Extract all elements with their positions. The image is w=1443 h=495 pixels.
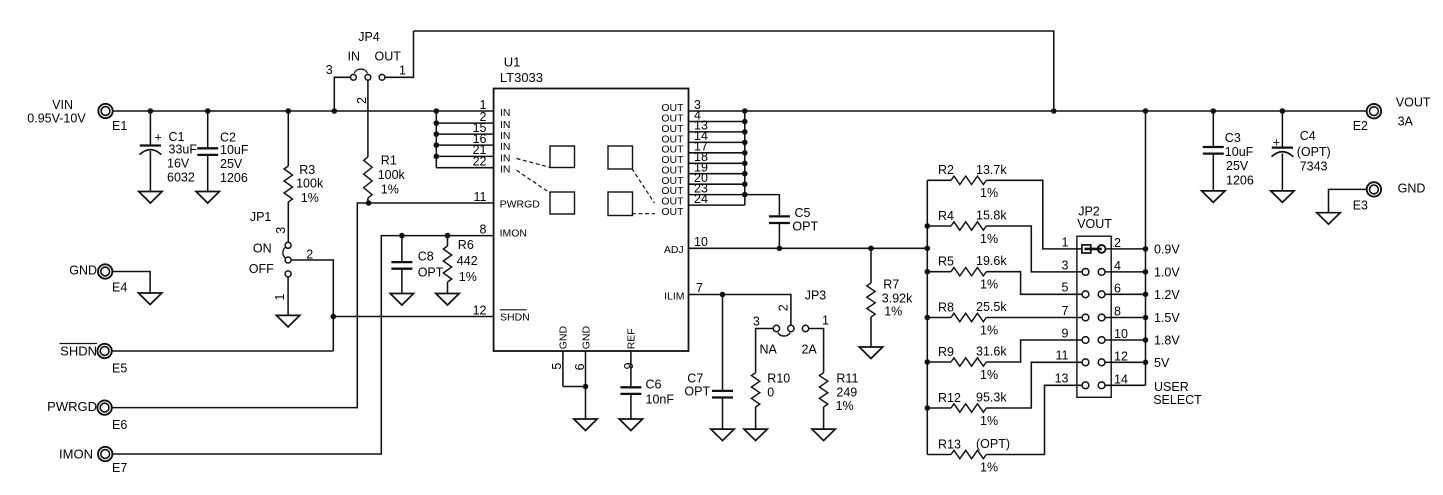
svg-text:VOUT: VOUT — [1396, 96, 1431, 110]
svg-text:E5: E5 — [112, 361, 127, 375]
ground E4 — [138, 293, 161, 305]
capacitor C8 — [391, 236, 443, 294]
JP2 odd pin numbers — [1055, 235, 1069, 385]
capacitor C1 — [140, 111, 198, 192]
svg-text:1: 1 — [1062, 235, 1069, 249]
svg-text:ILIM: ILIM — [664, 290, 684, 302]
junction R1 bottom — [366, 200, 372, 206]
svg-text:8: 8 — [1114, 305, 1121, 319]
svg-text:1%: 1% — [980, 414, 998, 428]
svg-text:VIN: VIN — [52, 98, 73, 112]
svg-text:1.5V: 1.5V — [1154, 311, 1180, 325]
svg-text:OUT: OUT — [661, 206, 684, 218]
op-amp U1 LT3033 body — [494, 54, 689, 351]
terminal E2 VOUT — [1353, 96, 1431, 133]
svg-text:GND: GND — [69, 264, 97, 278]
dashed link IN to pad LL — [517, 170, 551, 193]
svg-text:10: 10 — [1114, 327, 1128, 341]
svg-text:1: 1 — [822, 313, 829, 327]
dashed link pad UR to OUT — [632, 169, 655, 204]
pin labels OUT x11 — [661, 102, 684, 218]
junction ladder bus — [925, 223, 931, 411]
capacitor C3 — [1203, 111, 1254, 191]
svg-text:12: 12 — [473, 303, 487, 317]
resistor R8 — [927, 300, 1007, 337]
junction VIN wire — [148, 108, 440, 114]
svg-text:3: 3 — [1062, 258, 1069, 272]
svg-text:GND: GND — [558, 326, 570, 350]
svg-text:25.5k: 25.5k — [976, 300, 1007, 314]
svg-text:+: + — [155, 131, 162, 145]
svg-text:1%: 1% — [980, 232, 998, 246]
svg-text:7: 7 — [1062, 304, 1069, 318]
wire E6 PWRGD net — [112, 203, 494, 408]
capacitor C6 — [620, 377, 674, 419]
svg-text:10: 10 — [694, 235, 708, 249]
svg-text:100k: 100k — [378, 168, 406, 182]
wire OUT pin stubs — [689, 111, 745, 205]
ground C7 — [711, 429, 734, 441]
svg-text:OFF: OFF — [249, 262, 274, 276]
svg-text:11: 11 — [474, 190, 487, 204]
svg-text:25V: 25V — [1226, 159, 1249, 173]
svg-text:6032: 6032 — [167, 171, 195, 185]
wire JP2 even pins to VOUT bus — [1105, 249, 1146, 385]
svg-text:0: 0 — [767, 386, 774, 400]
svg-text:3.92k: 3.92k — [882, 291, 913, 305]
dashed link IN to pad UL — [517, 159, 551, 168]
svg-text:2: 2 — [1114, 236, 1121, 250]
svg-text:1.8V: 1.8V — [1154, 334, 1180, 348]
wire VOUT main — [745, 110, 1367, 112]
svg-text:8: 8 — [480, 222, 487, 236]
svg-text:OUT: OUT — [375, 50, 402, 64]
ground R7 — [859, 347, 882, 359]
svg-text:100k: 100k — [296, 177, 324, 191]
wire SHDN to IC pin 12 — [333, 316, 493, 318]
wire JP1 pin2 to SHDN net — [291, 260, 333, 351]
svg-text:C5: C5 — [795, 206, 811, 220]
wire IN bus vertical — [435, 111, 437, 168]
resistor R5 — [927, 254, 1007, 291]
dashed link pad LR to OUT — [632, 213, 655, 215]
svg-text:9: 9 — [1062, 326, 1069, 340]
svg-text:4: 4 — [1114, 259, 1121, 273]
svg-text:GND: GND — [580, 326, 592, 350]
svg-text:OPT: OPT — [684, 384, 710, 398]
svg-text:7: 7 — [696, 281, 703, 295]
svg-text:IN: IN — [348, 50, 361, 64]
svg-text:1%: 1% — [884, 305, 902, 319]
svg-text:10nF: 10nF — [646, 392, 675, 406]
svg-text:12: 12 — [1114, 349, 1128, 363]
svg-text:15.8k: 15.8k — [976, 209, 1007, 223]
svg-text:R12: R12 — [938, 391, 961, 405]
svg-text:1%: 1% — [980, 278, 998, 292]
svg-text:1: 1 — [273, 294, 287, 301]
resistor R13 — [927, 437, 1010, 474]
svg-text:NA: NA — [760, 343, 778, 357]
svg-text:9: 9 — [622, 362, 636, 369]
svg-text:PWRGD: PWRGD — [47, 399, 97, 414]
svg-text:ON: ON — [253, 241, 272, 255]
wire JP4 pin3 to VIN — [334, 77, 350, 111]
wire R13 to JP2 pin 13 — [986, 385, 1082, 454]
ground C2 — [196, 192, 219, 204]
ground C3 — [1202, 191, 1225, 203]
svg-text:SHDN: SHDN — [500, 312, 530, 324]
junction IMON net — [399, 233, 450, 239]
svg-text:2: 2 — [777, 304, 791, 311]
svg-text:5: 5 — [550, 363, 564, 370]
svg-text:R4: R4 — [938, 209, 954, 223]
svg-text:3A: 3A — [1398, 115, 1414, 129]
svg-text:1%: 1% — [980, 323, 998, 337]
junction IN bus — [434, 120, 440, 159]
ground JP1 — [276, 315, 299, 327]
junction VOUT main — [1051, 108, 1285, 114]
svg-text:REF: REF — [626, 328, 638, 349]
svg-text:1.0V: 1.0V — [1154, 265, 1180, 279]
svg-text:16V: 16V — [167, 157, 190, 171]
svg-text:+: + — [1273, 136, 1280, 150]
capacitor C7 — [684, 295, 733, 430]
svg-text:10uF: 10uF — [220, 143, 249, 157]
resistor R7 — [867, 248, 913, 347]
pad square LL — [550, 192, 575, 214]
svg-text:1%: 1% — [301, 191, 319, 205]
svg-text:OPT: OPT — [418, 265, 444, 279]
pad square UL — [550, 146, 575, 168]
pin GND 6 — [573, 326, 593, 419]
svg-text:31.6k: 31.6k — [976, 345, 1007, 359]
svg-text:1: 1 — [399, 64, 406, 78]
wire JP4 pin1 to top net — [385, 31, 414, 77]
svg-text:3: 3 — [274, 227, 288, 234]
wire JP4 pin2 down to R1 — [367, 80, 369, 157]
ground IC GND pins — [574, 419, 597, 431]
wire R12 to JP2 pin 11 — [986, 362, 1082, 408]
ground R10 — [744, 429, 767, 441]
resistor R1 — [364, 154, 406, 204]
svg-text:GND: GND — [1398, 182, 1426, 196]
connector JP2 body — [1077, 204, 1112, 397]
svg-text:2A: 2A — [801, 343, 817, 357]
svg-text:ADJ: ADJ — [664, 244, 684, 256]
svg-text:249: 249 — [836, 386, 857, 400]
junction VOUT select bus — [1143, 246, 1149, 365]
wire JP1 pin1 down — [287, 277, 289, 316]
terminal E6 PWRGD — [47, 399, 127, 432]
svg-text:R9: R9 — [938, 345, 954, 359]
junction ADJ net — [777, 246, 930, 252]
svg-text:IMON: IMON — [500, 228, 527, 240]
ground C8 — [390, 294, 413, 306]
svg-text:E3: E3 — [1353, 199, 1368, 213]
wire E4 to ground — [112, 272, 150, 294]
pin REF 9 — [622, 328, 638, 387]
ground C1 — [139, 192, 162, 204]
terminal E5 SHDN — [60, 344, 128, 376]
wire OUT bus vertical — [744, 111, 746, 205]
svg-text:(OPT): (OPT) — [976, 437, 1010, 451]
svg-text:JP3: JP3 — [805, 288, 827, 302]
svg-text:R10: R10 — [767, 372, 790, 386]
ground E3 — [1317, 213, 1340, 225]
pad square UR — [608, 146, 633, 169]
capacitor C2 — [197, 111, 249, 192]
resistor R4 — [927, 209, 1007, 246]
wire R9 to JP2 pin 9 — [986, 340, 1082, 362]
wire top feedback to VOUT — [414, 31, 1054, 111]
svg-text:13.7k: 13.7k — [976, 163, 1007, 177]
svg-text:2: 2 — [306, 247, 313, 261]
ground C4 — [1271, 191, 1294, 203]
wire VIN main — [112, 110, 493, 112]
JP2 even pin numbers — [1114, 236, 1128, 386]
jumper JP4 — [326, 30, 406, 104]
svg-text:0.9V: 0.9V — [1154, 242, 1180, 256]
svg-text:JP1: JP1 — [250, 210, 272, 224]
wire OUT to C5 — [745, 195, 780, 217]
svg-text:SHDN: SHDN — [60, 344, 97, 359]
svg-text:95.3k: 95.3k — [976, 391, 1007, 405]
svg-text:SELECT: SELECT — [1153, 393, 1202, 407]
wire E7 IMON net — [112, 236, 494, 454]
junction OUT bus — [742, 108, 748, 197]
svg-text:(OPT): (OPT) — [1297, 145, 1331, 159]
terminal E1 VIN — [27, 98, 127, 133]
svg-text:1%: 1% — [459, 270, 477, 284]
pin numbers OUT 3 4 13 14 17 18 19 20 23 24 — [694, 98, 708, 206]
svg-text:1.2V: 1.2V — [1154, 288, 1180, 302]
ground C6 — [619, 419, 642, 431]
svg-text:IN: IN — [500, 164, 511, 176]
wire GND join — [563, 386, 586, 388]
svg-text:U1: U1 — [504, 54, 521, 69]
svg-text:1206: 1206 — [1226, 173, 1254, 187]
svg-text:R13: R13 — [938, 437, 961, 451]
wire E5 SHDN — [112, 350, 334, 352]
svg-text:1206: 1206 — [220, 171, 248, 185]
svg-text:1%: 1% — [980, 460, 998, 474]
ground R6 — [436, 294, 459, 306]
capacitor C4 — [1272, 111, 1331, 191]
svg-text:2: 2 — [355, 97, 369, 104]
svg-text:R7: R7 — [883, 277, 899, 291]
junction SHDN tee — [331, 314, 337, 320]
svg-text:R5: R5 — [938, 255, 954, 269]
resistor R2 — [927, 163, 1007, 200]
svg-text:3: 3 — [753, 314, 760, 328]
ground R11 — [812, 429, 835, 441]
junction ILIM C7 — [720, 292, 726, 298]
resistor R6 — [443, 236, 477, 294]
terminal E3 GND — [1353, 182, 1426, 213]
resistor R3 — [284, 111, 324, 242]
wire JP3 pin3 to R10 — [756, 329, 774, 373]
jumper JP3 — [753, 288, 829, 356]
capacitor C5 — [769, 206, 819, 249]
svg-text:R11: R11 — [836, 372, 858, 386]
svg-text:7343: 7343 — [1300, 160, 1328, 174]
svg-text:0.95V-10V: 0.95V-10V — [27, 112, 86, 126]
svg-text:VOUT: VOUT — [1077, 217, 1112, 231]
svg-text:E6: E6 — [112, 418, 127, 432]
svg-text:5V: 5V — [1154, 356, 1170, 370]
svg-text:PWRGD: PWRGD — [500, 199, 541, 211]
svg-text:3: 3 — [326, 63, 333, 77]
wire E3 to ground — [1329, 189, 1368, 212]
svg-text:13: 13 — [1055, 372, 1069, 386]
svg-text:R2: R2 — [938, 163, 954, 177]
svg-text:R6: R6 — [458, 238, 474, 252]
pin GND 5 — [550, 326, 570, 387]
svg-text:R8: R8 — [938, 300, 954, 314]
wire VOUT select bus vertical — [1145, 111, 1147, 385]
svg-text:E7: E7 — [112, 461, 127, 475]
wire ADJ net — [689, 247, 928, 249]
svg-text:22: 22 — [473, 155, 487, 169]
svg-text:IN: IN — [500, 141, 511, 153]
svg-text:1%: 1% — [381, 183, 399, 197]
JP2 pin circles — [1082, 269, 1105, 389]
svg-text:C6: C6 — [646, 377, 662, 391]
jumper JP1 — [249, 210, 313, 301]
svg-text:33uF: 33uF — [169, 142, 198, 156]
svg-text:6: 6 — [573, 363, 587, 370]
wire R8 to JP2 pin 7 — [986, 317, 1082, 319]
svg-text:OPT: OPT — [792, 220, 818, 234]
junction GND join — [583, 384, 589, 390]
resistor R9 — [927, 345, 1007, 382]
terminal E4 GND — [69, 264, 127, 295]
svg-text:1%: 1% — [980, 368, 998, 382]
resistor R11 — [819, 372, 858, 429]
wire JP3 pin1 to R11 — [809, 329, 824, 373]
resistor R10 — [751, 372, 790, 429]
svg-text:1%: 1% — [980, 186, 998, 200]
svg-text:14: 14 — [1114, 372, 1128, 386]
svg-text:6: 6 — [1114, 281, 1121, 295]
node voltage labels — [1153, 242, 1202, 407]
svg-text:442: 442 — [457, 254, 478, 268]
svg-text:IN: IN — [500, 107, 511, 119]
svg-text:10uF: 10uF — [1225, 145, 1254, 159]
wire ladder bus vertical — [926, 180, 928, 454]
wire ILIM net — [689, 295, 791, 326]
pin numbers IN 1 2 15 16 21 22 — [473, 98, 487, 169]
svg-text:E1: E1 — [112, 119, 127, 133]
svg-text:25V: 25V — [220, 157, 243, 171]
svg-text:E2: E2 — [1353, 119, 1368, 133]
svg-text:LT3033: LT3033 — [500, 70, 543, 85]
terminal E7 IMON — [59, 447, 127, 475]
wire R4 to JP2 pin 3 — [986, 226, 1082, 272]
JP2 pin 1 square with shunt — [1082, 245, 1106, 253]
svg-text:R3: R3 — [299, 163, 315, 177]
svg-text:19.6k: 19.6k — [976, 254, 1007, 268]
wire R5 to JP2 pin 5 — [986, 272, 1082, 295]
wire R2 to JP2 pin 1 — [986, 180, 1082, 249]
wire IN pin stubs — [436, 123, 493, 168]
svg-text:C4: C4 — [1300, 129, 1316, 143]
pin label SHDN — [500, 310, 530, 324]
svg-text:R1: R1 — [381, 154, 397, 168]
svg-text:C8: C8 — [418, 249, 434, 263]
svg-text:C3: C3 — [1225, 131, 1241, 145]
svg-text:11: 11 — [1056, 349, 1069, 363]
resistor R12 — [927, 391, 1007, 428]
svg-text:USER: USER — [1154, 380, 1189, 394]
svg-text:E4: E4 — [112, 280, 127, 294]
svg-text:IN: IN — [500, 152, 511, 164]
pin labels IN x6 — [500, 107, 511, 176]
svg-text:IMON: IMON — [59, 447, 93, 462]
svg-text:JP4: JP4 — [358, 30, 380, 44]
svg-text:1%: 1% — [836, 399, 854, 413]
svg-text:5: 5 — [1062, 281, 1069, 295]
pad square LR — [608, 192, 633, 216]
